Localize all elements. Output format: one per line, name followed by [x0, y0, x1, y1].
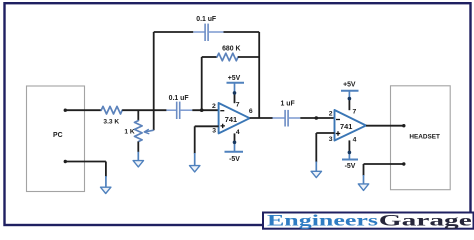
wire: U1 output pin 6 to capacitor C3: [250, 117, 273, 119]
node: dot on U2 pin 7 stem: [348, 97, 352, 101]
HEADSET box: [391, 86, 451, 190]
+5V supply rail of U1: [227, 75, 245, 103]
U1 inverting input minus sign: [220, 110, 224, 112]
-5V supply rail of U1: [225, 133, 244, 163]
ground under R2: [133, 161, 143, 167]
wire: R2 bottom to ground: [137, 142, 139, 161]
ground under PC return: [101, 187, 111, 193]
capacitor C3 1 uF (coupling): [272, 110, 300, 127]
node: PC lower terminal dot: [64, 160, 67, 163]
wire: U1 pin 3 to ground: [195, 126, 219, 166]
svg-text:3: 3: [212, 127, 216, 134]
ground under HEADSET return: [358, 184, 368, 191]
node: junction dot at U1 inverting input: [200, 108, 204, 112]
capacitor C2 0.1 uF (series input): [166, 102, 192, 119]
svg-text:4: 4: [236, 129, 240, 136]
svg-text:2: 2: [329, 111, 333, 118]
svg-text:HEADSET: HEADSET: [409, 134, 440, 141]
wire: U2 pin 3 to ground: [316, 133, 334, 172]
wire: HEADSET return to ground: [364, 164, 404, 184]
svg-text:3: 3: [329, 136, 333, 143]
svg-text:+5V: +5V: [343, 81, 356, 88]
node: junction dot on U2 input wire: [315, 116, 319, 120]
capacitor C1 0.1 uF (top feedback): [154, 24, 260, 41]
wire: PC lower terminal to ground: [65, 162, 106, 188]
svg-text:-5V: -5V: [229, 156, 240, 163]
op-amp U2 741: [335, 110, 367, 141]
svg-text:-5V: -5V: [345, 163, 356, 170]
svg-text:7: 7: [236, 101, 240, 108]
svg-text:6: 6: [249, 108, 253, 115]
node: dot on U1 pin 7 stem: [233, 91, 237, 95]
ground under U1 pin 3: [190, 166, 200, 172]
svg-text:741: 741: [225, 115, 237, 124]
+5V supply rail of U2: [341, 81, 359, 110]
resistor R3 680 K (feedback): [202, 53, 260, 61]
svg-text:1 K: 1 K: [124, 128, 134, 135]
svg-text:PC: PC: [53, 132, 63, 139]
node: HEADSET lower terminal dot: [402, 162, 405, 165]
wire: stub down to potentiometer R2 top: [137, 110, 139, 120]
svg-text:0.1 uF: 0.1 uF: [196, 16, 216, 23]
svg-text:2: 2: [212, 103, 216, 110]
svg-text:+5V: +5V: [228, 75, 241, 82]
svg-text:7: 7: [353, 108, 357, 115]
op-amp U1 741: [219, 103, 250, 133]
PC box: [27, 86, 85, 192]
resistor R1 3.3 K: [101, 106, 122, 114]
EngineersGarage logo box: [263, 213, 474, 229]
wire: PC upper output to resistor R1: [65, 109, 101, 111]
svg-text:0.1 uF: 0.1 uF: [169, 95, 189, 102]
wire: R1 to capacitor C2: [122, 109, 166, 111]
potentiometer R2 1 K: [135, 121, 154, 142]
svg-text:680 K: 680 K: [222, 45, 240, 52]
svg-text:Garage: Garage: [379, 213, 472, 230]
ground under U2 pin 3: [311, 171, 321, 177]
svg-text:1 uF: 1 uF: [281, 101, 295, 108]
node: PC upper terminal junction dot: [64, 109, 67, 112]
node: dot on U2 pin 4 stem: [348, 151, 352, 155]
svg-text:Engineers: Engineers: [267, 213, 378, 230]
-5V supply rail of U2: [342, 140, 358, 169]
U2 inverting input minus sign: [336, 119, 340, 121]
wire: feedback right vertical down to U1 output: [258, 32, 260, 118]
svg-text:4: 4: [353, 136, 357, 143]
wire: C1 feedback left vertical and wiper drop: [153, 32, 155, 130]
wire: C3 to op-amp U2 pin 2: [300, 117, 334, 119]
wire: C2 to op-amp U1 pin 2: [192, 109, 218, 111]
wire: R3 feedback left vertical: [201, 57, 203, 110]
node: dot on U1 pin 4 stem: [233, 141, 237, 145]
U2 non-inverting input plus sign: [336, 131, 340, 135]
wire: U2 output to HEADSET: [366, 125, 404, 127]
svg-text:3.3 K: 3.3 K: [103, 118, 119, 125]
U1 non-inverting input plus sign: [221, 124, 225, 128]
svg-text:741: 741: [340, 122, 352, 131]
node: HEADSET upper terminal dot: [402, 124, 405, 127]
